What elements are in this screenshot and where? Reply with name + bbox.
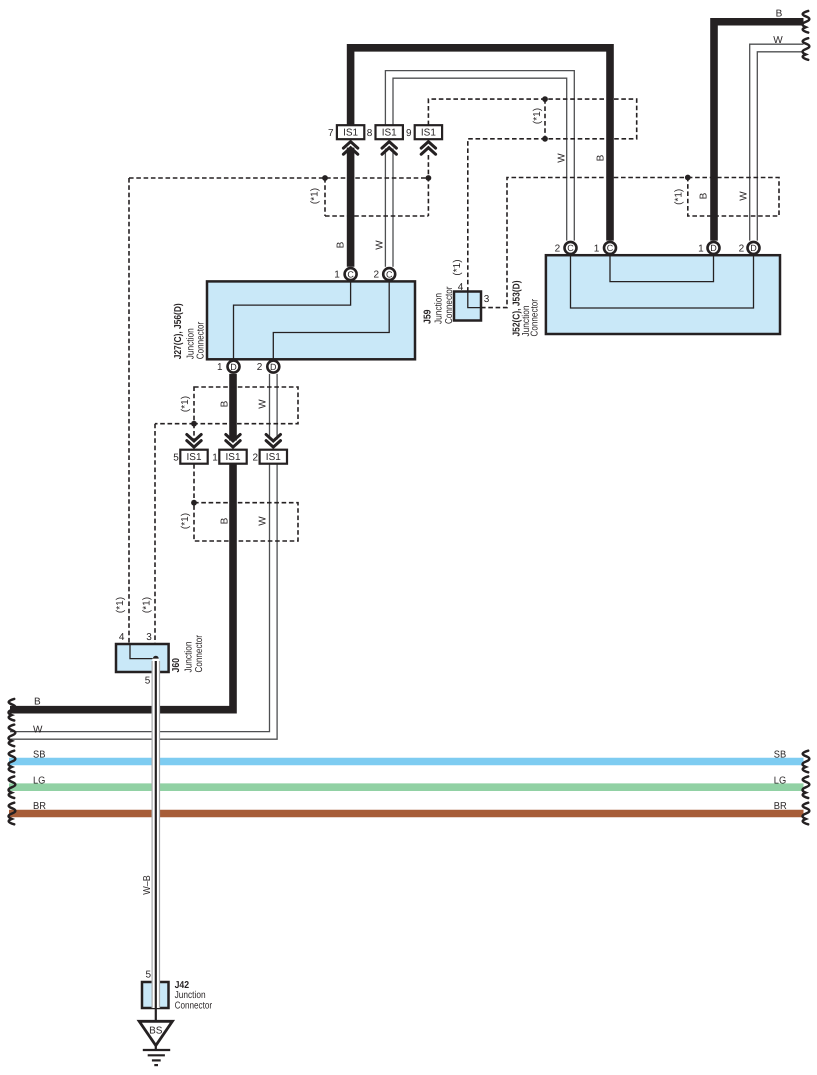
svg-text:IS1: IS1 xyxy=(187,452,202,463)
shield chevrons IS1-2 xyxy=(266,435,280,448)
svg-text:B: B xyxy=(596,154,607,161)
pin 1 D of J52 xyxy=(698,242,719,255)
svg-text:5: 5 xyxy=(173,452,179,463)
node junction dot right box xyxy=(685,175,691,181)
svg-text:Connector: Connector xyxy=(194,634,205,672)
svg-text:C: C xyxy=(607,243,614,253)
wire dashed horizontal to left vertical xyxy=(129,177,428,179)
label J27(C), J56(D) xyxy=(173,303,207,359)
break symbol BR bus left xyxy=(9,803,16,825)
junction connector J52(C) J53(D) box xyxy=(546,255,780,334)
label W-B wire xyxy=(142,875,153,895)
svg-text:B: B xyxy=(699,192,710,199)
svg-text:8: 8 xyxy=(367,128,373,139)
svg-text:W: W xyxy=(258,399,269,409)
svg-text:7: 7 xyxy=(328,128,334,139)
wire dashed box A to IS1-5 xyxy=(193,424,195,439)
label B top-right xyxy=(776,8,783,19)
svg-text:W: W xyxy=(557,153,568,163)
svg-text:1: 1 xyxy=(698,243,704,254)
svg-text:5: 5 xyxy=(145,676,151,687)
break symbol B top-right xyxy=(803,11,810,33)
svg-text:1: 1 xyxy=(212,452,218,463)
label (*1) top box xyxy=(532,108,543,124)
svg-text:BS: BS xyxy=(149,1026,163,1037)
pin 3 of J59 xyxy=(484,294,490,305)
break symbol LG bus left xyxy=(9,776,16,798)
svg-text:C: C xyxy=(567,243,574,253)
wire W loop IS1-8 to J52 pin C2 xyxy=(385,71,574,241)
svg-text:W: W xyxy=(375,240,386,250)
wire dashed IS1-5 to box B xyxy=(193,464,195,501)
node junction dot box B xyxy=(191,500,197,506)
svg-text:D: D xyxy=(750,243,757,253)
wire W top-right to J52 pin D2 xyxy=(750,44,804,240)
label (*1) at J60 pin 3 xyxy=(142,597,153,613)
wire dashed IS1-9 down segment xyxy=(427,155,429,216)
wire B top-right to J52 pin D1 xyxy=(714,22,804,241)
label BR bus right xyxy=(774,801,787,812)
svg-text:2: 2 xyxy=(257,362,263,373)
J60 internal bus xyxy=(130,644,156,659)
svg-text:3: 3 xyxy=(146,632,152,643)
svg-text:Connector: Connector xyxy=(196,321,207,359)
label B in right box xyxy=(699,192,710,199)
svg-text:(*1): (*1) xyxy=(452,259,463,275)
label W at J52 C2 xyxy=(557,153,568,163)
J27 internal bus C2-D2 xyxy=(273,281,389,359)
svg-text:1: 1 xyxy=(594,243,600,254)
connector IS1 pin 2 xyxy=(252,450,287,464)
label J42 xyxy=(175,980,213,1012)
shield chevrons IS1-8 xyxy=(382,142,396,155)
connector IS1 pin 7 xyxy=(328,125,364,139)
svg-text:IS1: IS1 xyxy=(266,452,281,463)
pin 1 D of J27 xyxy=(217,361,239,374)
svg-text:4: 4 xyxy=(458,282,464,293)
label (*1) box A xyxy=(180,396,191,412)
wire dashed second vertical to J60 pin 3 xyxy=(154,424,156,644)
svg-text:(*1): (*1) xyxy=(180,513,191,529)
label B box B xyxy=(220,517,231,524)
junction connector J59 box xyxy=(454,292,481,321)
label (*1) at J59 xyxy=(452,259,463,275)
label W in right box xyxy=(739,191,750,201)
connector IS1 pin 1 xyxy=(212,450,246,464)
svg-text:Connector: Connector xyxy=(530,298,541,336)
svg-text:IS1: IS1 xyxy=(343,128,358,139)
svg-text:W: W xyxy=(739,191,750,201)
pin 2 D of J27 xyxy=(257,361,280,374)
svg-text:W: W xyxy=(258,516,269,526)
label J60 xyxy=(171,634,205,672)
svg-text:D: D xyxy=(230,362,237,372)
svg-text:(*1): (*1) xyxy=(532,108,543,124)
shield chevrons IS1-1 xyxy=(226,435,240,448)
connector IS1 pin 9 xyxy=(406,125,442,139)
wire J42 to ground xyxy=(155,1008,157,1050)
svg-text:(*1): (*1) xyxy=(180,396,191,412)
label (*1) right box xyxy=(674,189,685,205)
junction connector J27(C) J56(D) box xyxy=(207,281,415,359)
break symbol BR bus right xyxy=(803,803,810,825)
connector IS1 pin 8 xyxy=(367,125,403,139)
ground triangle BS xyxy=(139,1021,172,1045)
wire B J27 pin D1 to IS1-1 xyxy=(229,374,237,441)
label B bus xyxy=(34,697,41,708)
svg-text:9: 9 xyxy=(406,128,412,139)
svg-text:SB: SB xyxy=(33,749,46,760)
wire dashed link at node (546,99-139) xyxy=(544,99,546,139)
shield chevrons IS1-9 xyxy=(421,142,435,155)
svg-text:5: 5 xyxy=(146,969,152,980)
label BR bus left xyxy=(33,801,46,812)
pin 5 of J42 xyxy=(146,969,152,980)
svg-text:D: D xyxy=(710,243,717,253)
pin 1 C of J27 xyxy=(334,268,356,281)
wire dashed box A corner to second vertical xyxy=(155,423,194,425)
label W bus xyxy=(33,725,43,736)
break symbol W bus left xyxy=(9,725,16,747)
wire SB bus xyxy=(9,758,804,766)
pin 5 of J60 xyxy=(145,676,151,687)
svg-text:(*1): (*1) xyxy=(674,189,685,205)
svg-text:J59: J59 xyxy=(423,309,434,324)
node junction dot box A xyxy=(191,421,197,427)
shield chevrons IS1-5 xyxy=(187,435,201,448)
svg-text:C: C xyxy=(347,269,354,279)
svg-text:B: B xyxy=(220,517,231,524)
pin 3 of J60 xyxy=(146,632,152,643)
wire LG bus xyxy=(9,783,804,791)
junction connector J42 box xyxy=(142,982,169,1008)
svg-text:W–B: W–B xyxy=(142,875,153,895)
wire B IS1-7 to J27 pin C1 xyxy=(347,148,355,267)
svg-text:1: 1 xyxy=(334,270,340,281)
ground symbol xyxy=(143,1050,170,1065)
(*1) dashed box B over B and W wires middle-lower xyxy=(194,503,298,541)
svg-text:W: W xyxy=(773,35,783,46)
label J52(C), J53(D) xyxy=(512,281,541,337)
label W top-right xyxy=(773,35,783,46)
label W box A xyxy=(258,399,269,409)
svg-text:Junction: Junction xyxy=(183,642,194,673)
break symbol SB bus right xyxy=(803,751,810,773)
label B at J52 C1 xyxy=(596,154,607,161)
svg-text:B: B xyxy=(336,241,347,248)
svg-text:BR: BR xyxy=(774,801,787,812)
(*1) dashed box over B and W wires right xyxy=(688,178,779,217)
(*1) dashed box over B and W wires top-left xyxy=(325,178,428,216)
svg-text:BR: BR xyxy=(33,801,46,812)
svg-text:2: 2 xyxy=(739,243,745,254)
svg-text:J60: J60 xyxy=(171,658,182,673)
break symbol SB bus left xyxy=(9,751,16,773)
pin 2 D of J52 xyxy=(739,242,760,255)
shield chevrons IS1-7 xyxy=(343,142,357,155)
label B box A xyxy=(220,400,231,407)
pin 2 C of J27 xyxy=(374,268,396,281)
svg-text:SB: SB xyxy=(774,749,787,760)
pin 1 C of J52 xyxy=(594,242,616,255)
label SB bus left xyxy=(33,749,46,760)
label W at J27 C2 xyxy=(375,240,386,250)
svg-text:J27(C), J56(D): J27(C), J56(D) xyxy=(173,303,184,359)
wire W IS1-2 to W bus and left edge xyxy=(10,464,277,739)
pin 4 of J60 xyxy=(119,632,125,643)
pin 4 of J59 xyxy=(458,282,464,293)
svg-text:B: B xyxy=(220,400,231,407)
J27 internal bus C1-D1 xyxy=(234,281,351,359)
svg-text:LG: LG xyxy=(774,775,787,786)
svg-text:2: 2 xyxy=(374,270,380,281)
svg-text:2: 2 xyxy=(252,452,258,463)
J52 internal bus C1-D1 xyxy=(610,255,714,281)
pin 2 C of J52 xyxy=(555,242,577,255)
svg-text:3: 3 xyxy=(484,294,490,305)
svg-text:B: B xyxy=(776,8,783,19)
svg-text:4: 4 xyxy=(119,632,125,643)
J59 internal bus xyxy=(468,292,481,308)
wire W IS1-8 to J27 pin C2 xyxy=(385,149,393,267)
svg-text:(*1): (*1) xyxy=(142,597,153,613)
label LG bus right xyxy=(774,775,787,786)
svg-text:Junction: Junction xyxy=(433,293,444,324)
wire dashed left vertical to J60 pin 4 xyxy=(128,178,130,644)
label SB bus right xyxy=(774,749,787,760)
wire dashed IS1-9 to J59 pin 4 xyxy=(428,99,636,291)
J52 internal bus C2-D2 xyxy=(571,255,754,308)
label J59 xyxy=(423,286,456,324)
svg-text:(*1): (*1) xyxy=(115,597,126,613)
node junction dots top-left box xyxy=(322,175,431,181)
svg-text:LG: LG xyxy=(33,775,46,786)
svg-text:2: 2 xyxy=(555,243,561,254)
svg-text:Connector: Connector xyxy=(444,286,455,324)
wire B loop IS1-7 to J52 pin C1 xyxy=(351,48,610,241)
node junction dots on dashed link xyxy=(542,96,548,142)
svg-text:D: D xyxy=(270,362,277,372)
svg-text:IS1: IS1 xyxy=(421,128,436,139)
wire W-B J60 pin 5 to J42 xyxy=(152,659,159,1008)
node junction dot inside J60 xyxy=(153,656,159,662)
svg-text:(*1): (*1) xyxy=(310,188,321,204)
junction connector J60 box xyxy=(116,644,169,672)
connector IS1 pin 5 xyxy=(173,450,207,464)
svg-text:B: B xyxy=(34,697,41,708)
break symbol LG bus right xyxy=(803,776,810,798)
label B at J27 C1 xyxy=(336,241,347,248)
label (*1) at J60 pin 4 xyxy=(115,597,126,613)
svg-text:C: C xyxy=(386,269,393,279)
break symbol B bus left xyxy=(9,699,16,721)
wire BR bus xyxy=(9,810,804,818)
svg-text:1: 1 xyxy=(217,362,223,373)
svg-text:Connector: Connector xyxy=(175,1000,213,1011)
label LG bus left xyxy=(33,775,46,786)
(*1) dashed box A over B and W wires middle xyxy=(194,387,298,424)
wire dashed J59 pin 3 to (*1) box xyxy=(481,178,688,308)
svg-text:W: W xyxy=(33,725,43,736)
wire B IS1-1 to B bus and left edge xyxy=(10,464,233,710)
label W box B xyxy=(258,516,269,526)
label (*1) box B xyxy=(180,513,191,529)
label (*1) left box xyxy=(310,188,321,204)
svg-text:IS1: IS1 xyxy=(226,452,241,463)
break symbol W top-right xyxy=(803,38,810,60)
wire W J27 pin D2 to IS1-2 xyxy=(270,374,278,440)
svg-text:IS1: IS1 xyxy=(382,128,397,139)
